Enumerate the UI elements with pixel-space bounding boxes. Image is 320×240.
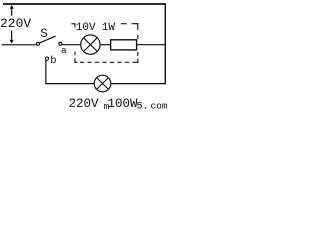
svg-text:com: com: [151, 101, 168, 112]
wire right vertical: [164, 4, 166, 85]
wire middle left segment: [2, 44, 37, 46]
wire bottom branch left segment: [45, 83, 94, 85]
svg-text:b: b: [50, 55, 56, 67]
svg-text:220V: 220V: [0, 16, 31, 31]
dashed box bottom edge: [75, 61, 139, 63]
wire lamp L1 to resistor R: [100, 44, 111, 46]
label 220V 100W (lamp L2 rating): [69, 97, 139, 111]
lamp L1 (10V 1W): [81, 35, 100, 54]
watermark fragment: [104, 101, 168, 113]
wire resistor to right vertical: [137, 44, 166, 46]
svg-text:10V: 10V: [76, 22, 96, 34]
dashed box top edge dashes: [121, 23, 139, 25]
wire bottom branch right segment: [111, 83, 166, 85]
switch S left contact: [36, 42, 39, 45]
svg-text:5.: 5.: [137, 102, 149, 113]
svg-text:1W: 1W: [102, 22, 116, 34]
svg-text:S: S: [40, 27, 48, 41]
wire switch to lamp L1: [62, 44, 81, 46]
voltage arrow up (to top wire): [10, 5, 14, 16]
node b terminal circle: [45, 57, 48, 60]
wire top supply line: [3, 3, 166, 5]
svg-text:a: a: [61, 45, 67, 56]
dashed box around L1 and R : top-left corner: [71, 23, 75, 27]
switch S blade: [39, 36, 55, 43]
lamp L2 (220V 100W): [94, 75, 111, 92]
resistor R: [111, 40, 137, 50]
svg-text:100W: 100W: [108, 97, 139, 111]
dashed box right edge: [137, 23, 139, 63]
wire from b down: [45, 60, 47, 84]
svg-text:220V: 220V: [69, 97, 100, 111]
switch S right contact: [59, 42, 62, 45]
dashed box left edge: [74, 52, 76, 63]
label 10V 1W: [76, 22, 116, 34]
voltage arrow down (to middle wire): [10, 31, 14, 44]
